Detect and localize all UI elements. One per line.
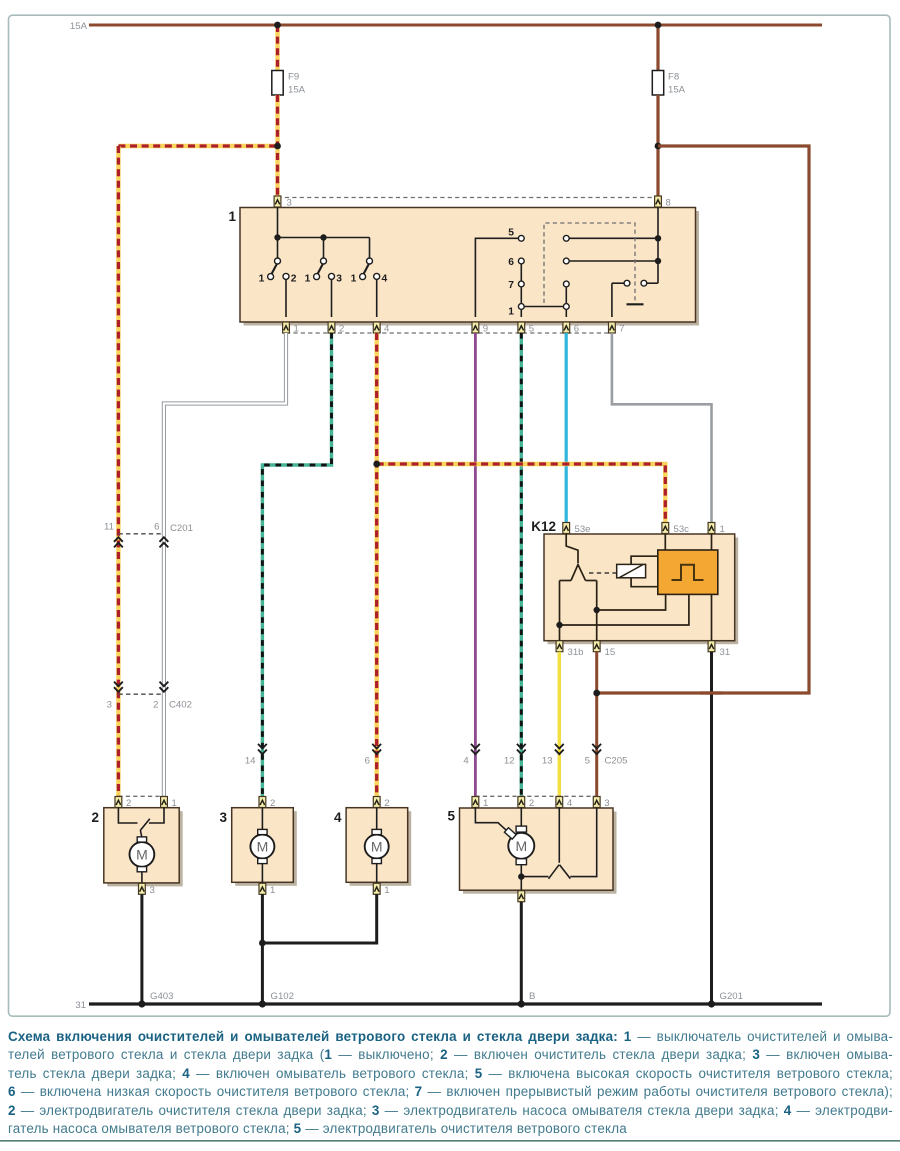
- motor 5 pin 4: [556, 797, 563, 808]
- junction dot yellow/red: [373, 461, 380, 468]
- svg-text:M: M: [515, 838, 527, 854]
- motor 2 pin 3: [139, 883, 146, 894]
- wire: relay 31 black to ground: [710, 652, 713, 1004]
- svg-text:2: 2: [291, 273, 297, 284]
- svg-text:11: 11: [104, 522, 114, 533]
- junction dots on pin8 rail: [655, 235, 661, 241]
- svg-text:1: 1: [294, 324, 299, 335]
- svg-text:15A: 15A: [288, 85, 306, 96]
- bottom pins of block 1: [286, 332, 612, 334]
- motor 5 bottom pin: [518, 891, 525, 902]
- svg-text:53e: 53e: [575, 524, 591, 535]
- connector C201 arrows: [114, 537, 123, 547]
- connector C402 arrows: [114, 682, 123, 692]
- svg-text:3: 3: [107, 700, 112, 711]
- svg-text:3: 3: [287, 198, 292, 209]
- dashed link motor5 pins: [475, 795, 596, 797]
- svg-text:7: 7: [508, 280, 514, 291]
- junction dot brown at relay 15: [593, 690, 600, 697]
- fuse F9: [272, 71, 283, 96]
- motor 3 M symbol: [250, 808, 274, 884]
- svg-text:15A: 15A: [70, 21, 88, 32]
- motor 3 (rear washer pump) shadow: [235, 811, 297, 886]
- svg-text:M: M: [371, 839, 383, 855]
- connector C402 dashed link: [118, 693, 163, 695]
- wire: yellow/red branch to relay 53c: [377, 464, 666, 523]
- wire: relay 31b yellow to motor 5 pin 4: [558, 652, 561, 797]
- svg-text:G102: G102: [271, 991, 294, 1002]
- junction dot motors 3-4: [259, 940, 266, 947]
- svg-text:2: 2: [153, 700, 158, 711]
- svg-text:4: 4: [384, 324, 390, 335]
- svg-text:M: M: [136, 847, 148, 863]
- motor 2 pin 2: [115, 797, 122, 808]
- svg-text:15: 15: [605, 647, 616, 658]
- wire: block1 pin2 teal/black to motor 3 pin 2: [262, 333, 331, 797]
- wire: relay 15 brown to motor 5 pin 3: [595, 652, 598, 797]
- svg-text:31b: 31b: [568, 647, 584, 658]
- svg-text:2: 2: [384, 798, 389, 809]
- relay internal contact from 53e: [560, 534, 712, 641]
- motor 2 lead to pin 3: [141, 872, 143, 884]
- svg-text:4: 4: [463, 756, 469, 767]
- wire: block1 pin9 purple to motor 5 pin 1: [474, 333, 477, 797]
- relay K12 body: [544, 534, 735, 641]
- svg-text:G403: G403: [150, 991, 173, 1002]
- contact links column A: [521, 208, 658, 318]
- svg-text:1: 1: [384, 885, 389, 896]
- svg-text:9: 9: [483, 324, 488, 335]
- motor 5 (windshield wiper) shadow: [463, 812, 617, 894]
- wires from switch contacts to bottom pins: [286, 279, 377, 317]
- switch B arm (positions 1-3): [318, 264, 323, 274]
- svg-text:3: 3: [604, 798, 609, 809]
- motor 3 pin 2: [259, 797, 266, 808]
- svg-text:F8: F8: [668, 72, 679, 83]
- wire: block1 pin5 teal/black to motor 5 pin 2: [520, 333, 523, 797]
- relay pin 53e: [563, 523, 570, 534]
- contact circles column A: [518, 235, 524, 241]
- ground G201: [708, 1000, 715, 1007]
- svg-text:8: 8: [666, 198, 671, 209]
- junction dot motor 5: [518, 873, 524, 879]
- motor 5 pin 3: [593, 797, 600, 808]
- svg-text:2: 2: [270, 798, 275, 809]
- motor 4 body: [346, 808, 408, 883]
- connector arrows on motor wires: [258, 744, 267, 754]
- svg-text:1: 1: [270, 885, 275, 896]
- motor 5 internal wiring: [475, 808, 596, 891]
- wire: top power bus 15A: [89, 24, 822, 27]
- svg-text:5: 5: [585, 756, 590, 767]
- svg-text:14: 14: [245, 756, 256, 767]
- wire: motor 5 to ground B: [520, 902, 523, 1004]
- wire: block1 pin7 gray to relay pin 1: [612, 333, 712, 523]
- motor 2 body: [104, 808, 179, 883]
- wire: block1 pin4 yellow/red to motor 4 pin 2: [375, 333, 379, 797]
- bottom rule: [0, 1140, 900, 1142]
- motor 4 (windshield washer pump) shadow: [350, 811, 412, 886]
- motor 3 pin 1: [259, 883, 266, 894]
- svg-text:5: 5: [447, 809, 455, 824]
- switch A arm (positions 1-2): [272, 264, 277, 274]
- svg-text:M: M: [257, 839, 269, 855]
- wire: fuse F8 down to block 1 pin 8 (brown): [656, 95, 659, 197]
- relay pin 53c: [662, 523, 669, 534]
- motor 4 pin 1: [373, 883, 380, 894]
- motor 5 M symbol: [504, 826, 534, 865]
- svg-text:15A: 15A: [668, 85, 686, 96]
- pin 8 of block 1: [655, 196, 662, 207]
- svg-text:1: 1: [351, 273, 357, 284]
- dashed actuator link: [589, 572, 617, 574]
- svg-text:C402: C402: [169, 700, 192, 711]
- svg-text:1: 1: [508, 307, 514, 318]
- junction dot yellow/red branch: [274, 143, 281, 150]
- relay coil: [617, 564, 646, 577]
- wire: brown crossing over pin31 wire: [700, 691, 722, 694]
- ground G102: [259, 1000, 266, 1007]
- svg-text:6: 6: [365, 756, 370, 767]
- svg-text:1: 1: [483, 798, 488, 809]
- interval switch contacts: [624, 280, 630, 286]
- wire pin9 to contact 5: [475, 238, 518, 317]
- junction dots in relay: [594, 607, 600, 613]
- svg-text:1: 1: [259, 273, 265, 284]
- svg-text:1: 1: [720, 524, 725, 535]
- motor 4 pin 2: [373, 797, 380, 808]
- svg-text:5: 5: [529, 324, 534, 335]
- motor 3 body: [232, 808, 294, 883]
- svg-text:2: 2: [529, 798, 534, 809]
- wire: motor 4 to ground via motor 3 wire: [262, 894, 376, 943]
- svg-text:3: 3: [336, 273, 342, 284]
- ground G403: [138, 1000, 145, 1007]
- wire: bus to fuse F8 (brown): [656, 25, 659, 71]
- junction dots on feed rail: [274, 234, 280, 240]
- svg-text:1: 1: [228, 209, 236, 224]
- wire: yellow/red branch left: [118, 144, 277, 148]
- junction on bus at F9: [274, 22, 281, 29]
- svg-text:6: 6: [508, 257, 514, 268]
- motor 2 (rear wiper) shadow: [107, 811, 182, 886]
- motor 5 pin 1: [472, 797, 479, 808]
- svg-text:1: 1: [172, 798, 177, 809]
- relay pin 1: [708, 523, 715, 534]
- svg-text:4: 4: [567, 798, 573, 809]
- wire: yellow/red down left side to motor 2 pin 2: [116, 146, 120, 797]
- wire: brown branch right and down right side: [597, 146, 809, 693]
- svg-text:4: 4: [334, 810, 342, 825]
- dashed link motor2 pins: [118, 795, 164, 797]
- contact circles column B: [563, 235, 569, 241]
- block1 internal: feed from pin 3: [278, 208, 370, 259]
- timer module (orange): [658, 550, 718, 594]
- relay pin 15: [593, 641, 600, 652]
- svg-text:6: 6: [154, 522, 159, 533]
- relay K12 shadow: [548, 538, 739, 645]
- wire: block1 pin6 cyan to relay 53e: [565, 333, 568, 523]
- relay pin 31: [708, 641, 715, 652]
- svg-text:4: 4: [382, 273, 388, 284]
- svg-text:31: 31: [75, 1000, 86, 1011]
- wire: fuse F9 down to junction (yellow/red): [275, 95, 279, 197]
- svg-text:B: B: [529, 991, 535, 1002]
- dashed connector line top of block 1: [278, 197, 659, 199]
- wire: block1 pin1 white wire to motor 2 pin 1: [164, 333, 286, 797]
- svg-text:1: 1: [305, 273, 311, 284]
- junction on bus at F8: [655, 22, 662, 29]
- svg-text:7: 7: [619, 324, 624, 335]
- svg-text:F9: F9: [288, 72, 299, 83]
- svg-text:K12: K12: [531, 519, 556, 534]
- svg-text:13: 13: [542, 756, 553, 767]
- dashed mechanical frame: [544, 223, 635, 303]
- junction dot brown branch: [655, 143, 662, 150]
- svg-text:2: 2: [126, 798, 131, 809]
- svg-text:2: 2: [339, 324, 344, 335]
- svg-text:31: 31: [720, 647, 731, 658]
- svg-text:C201: C201: [170, 523, 193, 534]
- motor 5 body: [460, 808, 614, 890]
- switch unit 1 (wiper/washer switch) shadow: [244, 211, 700, 326]
- switch unit 1 body: [240, 208, 696, 323]
- svg-text:C205: C205: [605, 756, 628, 767]
- relay pin 31b: [556, 641, 563, 652]
- svg-text:6: 6: [574, 324, 579, 335]
- wire: motor 3 to ground G102: [261, 894, 264, 1004]
- motor 2 pin 1: [161, 797, 168, 808]
- wire: bus to fuse F9 (yellow/red): [275, 25, 279, 71]
- motor 5 pin 2: [518, 797, 525, 808]
- svg-text:5: 5: [508, 228, 514, 239]
- svg-text:53c: 53c: [674, 524, 690, 535]
- fuse F8: [652, 71, 663, 96]
- motor 2 internal thermal switch: [118, 808, 164, 838]
- ground B: [518, 1000, 525, 1007]
- wire: motor 2 to ground G403: [140, 894, 143, 1004]
- mechanical stop bar: [627, 303, 644, 305]
- svg-text:3: 3: [219, 810, 227, 825]
- caption text: [8, 1028, 893, 1138]
- pin 3 of block 1: [274, 196, 281, 207]
- motor 2 M symbol: [130, 837, 155, 872]
- ground bus 31: [89, 1002, 822, 1005]
- pulse symbol: [672, 565, 704, 580]
- svg-text:G201: G201: [720, 991, 743, 1002]
- connector C201 dashed link: [118, 533, 163, 535]
- svg-text:2: 2: [91, 810, 99, 825]
- switch C arm (positions 1-4): [364, 264, 369, 274]
- motor 4 M symbol: [365, 808, 389, 884]
- svg-text:12: 12: [504, 756, 515, 767]
- svg-text:3: 3: [150, 885, 155, 896]
